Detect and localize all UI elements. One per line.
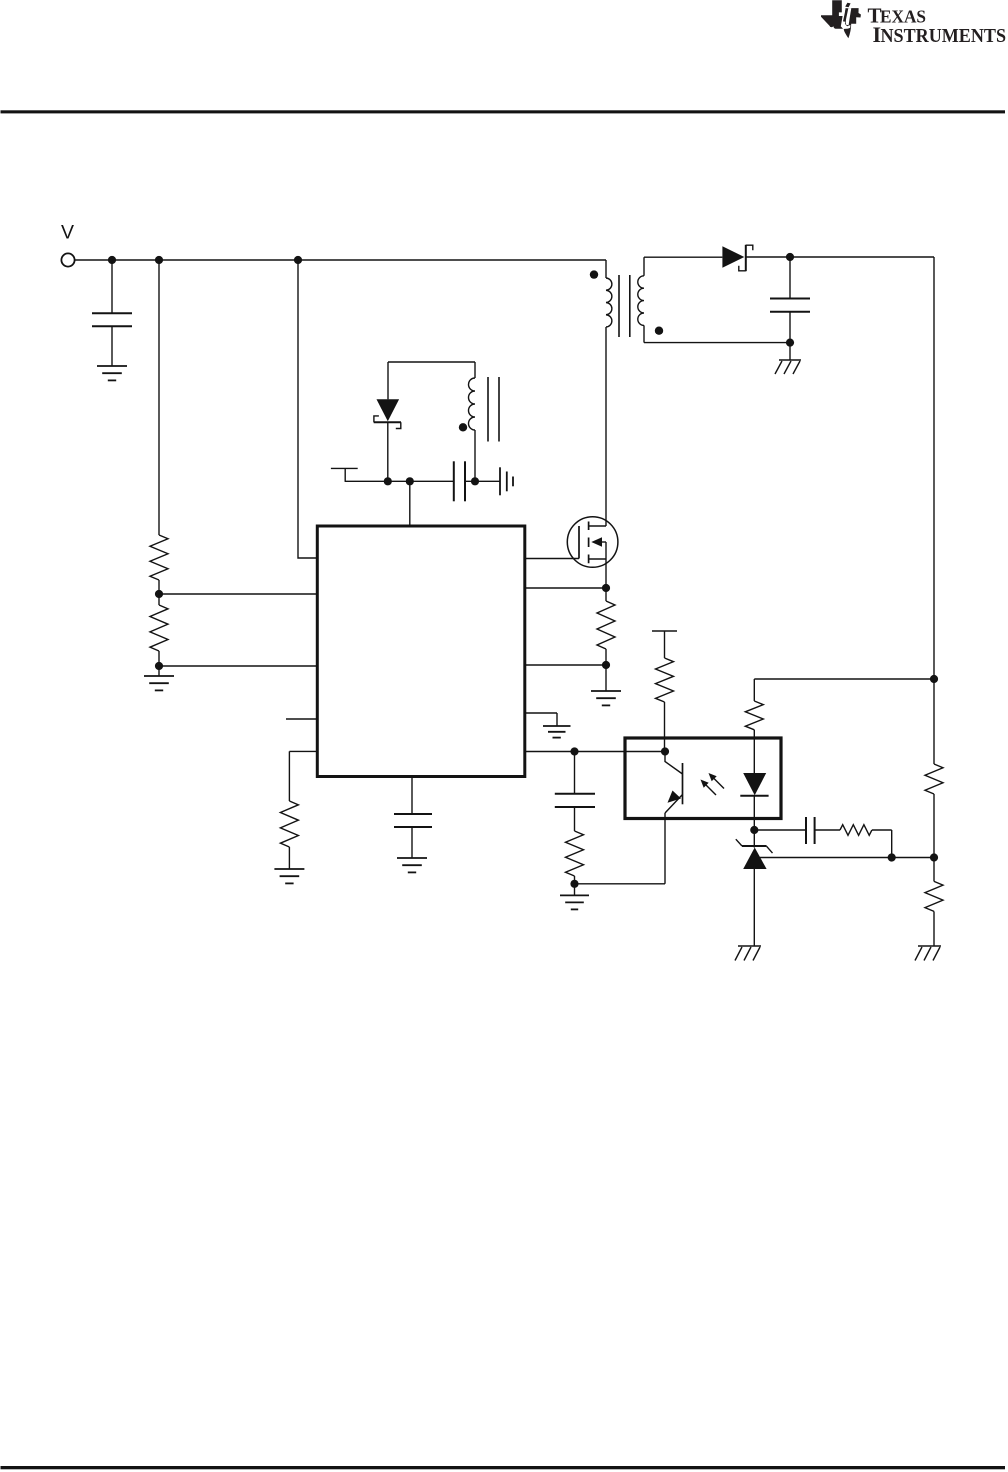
opto transistor xyxy=(665,752,683,884)
wire IC top pin xyxy=(409,481,411,526)
resistor R7 xyxy=(840,825,872,836)
junction dot A2 xyxy=(155,256,163,264)
phase dot aux xyxy=(459,423,467,431)
resistor R3 sense xyxy=(597,588,615,665)
junction dot tap1 xyxy=(155,590,163,598)
junction dot RD xyxy=(930,675,938,683)
wire rail to IC VDD xyxy=(298,260,317,558)
capacitor C6 xyxy=(394,814,432,858)
junction dot collector xyxy=(661,747,669,755)
junction dot REFb xyxy=(930,853,938,861)
Texas Instruments logo map xyxy=(821,0,861,38)
wire R3 to ground xyxy=(605,665,607,691)
diode D1 schottky xyxy=(722,245,752,271)
junction dot VDDb xyxy=(406,477,414,485)
resistor R10 xyxy=(280,801,298,869)
IC U1 xyxy=(317,526,525,777)
wire D2 cathode down xyxy=(387,422,389,481)
ground G6 xyxy=(397,858,427,872)
junction dot CSret xyxy=(602,661,610,669)
wire bias top row xyxy=(754,678,934,680)
wire R9 to ground xyxy=(933,911,935,946)
junction dot A1 xyxy=(108,256,116,264)
svg-text:NSTRUMENTS: NSTRUMENTS xyxy=(881,26,1007,47)
wire emitter row xyxy=(575,883,666,885)
ground G1 xyxy=(97,366,127,380)
TL431 U3 xyxy=(736,830,773,946)
junction dot OUT xyxy=(786,253,794,261)
wire VS pin xyxy=(525,664,606,666)
capacitor C4 xyxy=(555,752,595,832)
wire FB row xyxy=(525,751,665,753)
wire upper divider xyxy=(933,679,935,764)
transformer T1 primary xyxy=(606,260,612,526)
capacitor C5 xyxy=(806,817,815,844)
capacitor C2 xyxy=(454,461,465,501)
wire R8 to REF xyxy=(933,794,935,858)
wire tap2 to ground xyxy=(158,666,160,676)
wire VDD row xyxy=(345,480,454,482)
wire to R6 xyxy=(753,679,755,701)
wire C5 to R7 xyxy=(815,829,840,831)
junction dot VDDa xyxy=(384,477,392,485)
junction dot OUTret xyxy=(786,339,794,347)
ground G2 xyxy=(144,676,174,690)
wire CS pin xyxy=(525,587,606,589)
wire R5 to collector xyxy=(664,702,666,752)
junction dot aux return xyxy=(471,477,479,485)
wire R7 to REF xyxy=(872,830,892,858)
wire R6 to opto xyxy=(753,730,755,738)
wire to D2 anode xyxy=(387,362,389,399)
diode D2 schottky xyxy=(374,399,401,428)
resistor R5 xyxy=(656,658,674,702)
wire secondary bottom xyxy=(644,342,790,344)
wire Ktl to C5 xyxy=(754,829,806,831)
wire C1 to ground xyxy=(111,326,113,366)
resistor R4 xyxy=(566,831,584,884)
wire output right drop xyxy=(933,257,935,679)
wire R2 to tap2 xyxy=(158,651,160,666)
ground G4 xyxy=(543,726,571,738)
wire to G7 xyxy=(574,884,576,896)
wire REF row xyxy=(760,857,934,859)
wire R1 to tap xyxy=(158,580,160,594)
core lines aux xyxy=(488,377,499,442)
wire gate xyxy=(525,558,579,560)
light arrows xyxy=(701,773,725,795)
junction dot FBa xyxy=(570,747,578,755)
wire to C1 xyxy=(111,260,113,313)
chassis ground Ga xyxy=(735,946,761,961)
wire tap1 to R2 xyxy=(158,594,160,605)
resistor R2 xyxy=(150,605,168,651)
resistor R1 xyxy=(150,535,168,580)
header rule xyxy=(1,110,1006,113)
wire D1 to corner xyxy=(746,256,934,258)
chassis ground Gs xyxy=(775,343,801,374)
wire input rail xyxy=(75,259,606,261)
logo wordmark INSTRUMENTS xyxy=(873,22,1007,47)
ground G3 xyxy=(591,691,621,705)
junction dot tap2 xyxy=(155,662,163,670)
wire REF to R9 xyxy=(933,858,935,882)
transformer T1 secondary xyxy=(638,257,644,342)
resistor R6 xyxy=(745,701,763,730)
svg-text:V: V xyxy=(61,222,74,244)
wire aux top xyxy=(388,361,475,363)
resistor R8 xyxy=(925,764,943,794)
wire divider drop xyxy=(158,260,160,535)
phase dot secondary xyxy=(655,327,663,335)
wire IC bottom pin xyxy=(411,777,413,814)
wire IC left stub xyxy=(286,718,317,720)
junction dot A3 xyxy=(294,256,302,264)
wire tap2 to IC xyxy=(159,665,317,667)
capacitor C1 xyxy=(92,313,132,326)
bias T stub 2 xyxy=(652,631,677,658)
footer rule xyxy=(1,1466,1006,1469)
ground G8 sideways xyxy=(500,467,513,495)
wire secondary top xyxy=(644,256,722,258)
chassis ground Gb xyxy=(915,946,941,961)
junction dot source xyxy=(602,584,610,592)
wire IC CTRL pin xyxy=(289,751,317,801)
bias T stub xyxy=(331,468,358,481)
logo wordmark TEXAS xyxy=(868,4,927,28)
mosfet Q1 xyxy=(567,517,618,588)
aux winding L1 xyxy=(469,362,475,481)
core lines T1 xyxy=(619,275,630,337)
logo white ti letters xyxy=(839,0,860,29)
logo black slash and tittle xyxy=(843,3,851,22)
wire GND stub xyxy=(525,713,557,726)
resistor R9 xyxy=(925,881,943,911)
junction dot REFa xyxy=(888,853,896,861)
input terminal xyxy=(61,253,74,266)
ground G5 xyxy=(274,869,304,883)
svg-text:EXAS: EXAS xyxy=(880,7,926,27)
junction dot Eret xyxy=(570,880,578,888)
capacitor C3 xyxy=(770,257,810,343)
wire tap1 to IC xyxy=(159,593,317,595)
opto LED D3 xyxy=(740,738,768,830)
phase dot primary xyxy=(590,270,598,278)
optocoupler U2 box xyxy=(625,738,781,819)
junction dot Ktl xyxy=(750,826,758,834)
wire C2 right xyxy=(465,480,500,482)
ground G7 xyxy=(560,895,589,909)
